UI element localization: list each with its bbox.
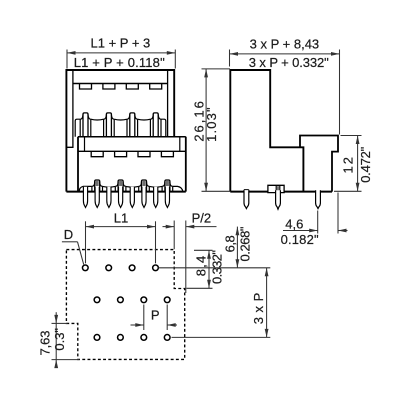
svg-text:P/2: P/2 xyxy=(192,211,212,226)
dim L1+P+3 over front view xyxy=(66,50,68,69)
dim 26,16 left of side view xyxy=(202,68,231,70)
bottom view: hole row 3 xyxy=(94,335,100,341)
dim 7,63 bottom-left step xyxy=(52,322,68,324)
dim 3xP+8,43 over side view xyxy=(229,50,231,67)
front view: lower band left end xyxy=(79,186,92,191)
bottom view: hole row 1 xyxy=(82,265,88,271)
svg-text:L1: L1 xyxy=(114,210,128,225)
bottom view: dashed body outline xyxy=(66,250,184,360)
front view: lower slot row xyxy=(91,151,103,156)
svg-text:6,8: 6,8 xyxy=(223,235,238,252)
dim P/2 over drilling plan right xyxy=(173,221,175,250)
dim 4,6 under side view right pin xyxy=(317,211,319,234)
front view: middle strip of lower housing xyxy=(78,136,186,138)
front view: upper flange line xyxy=(73,83,168,85)
svg-text:L1 + P + 0.118": L1 + P + 0.118" xyxy=(74,55,165,70)
svg-text:3 x P + 8,43: 3 x P + 8,43 xyxy=(250,37,320,52)
svg-text:1.03": 1.03" xyxy=(204,107,219,142)
svg-text:D: D xyxy=(64,227,73,242)
front view: upper scallop band xyxy=(83,113,88,137)
bottom view: hole row 2 xyxy=(94,297,100,303)
front view: lower scallop band xyxy=(95,180,100,192)
side view: main L profile xyxy=(230,70,303,192)
front view: scallop band left end xyxy=(75,119,80,137)
side view: left pin nubs above base xyxy=(243,190,245,192)
side view: middle pin pass-through post xyxy=(268,185,284,192)
dim 6,8 first hole row offset xyxy=(236,227,238,268)
svg-text:0.3": 0.3" xyxy=(52,328,67,351)
svg-text:8,4: 8,4 xyxy=(194,256,209,277)
front view: upper slot row xyxy=(80,84,92,90)
front view: upper housing outline xyxy=(66,70,174,192)
front view: lower band right end xyxy=(173,186,183,191)
svg-text:0.268": 0.268" xyxy=(238,226,253,261)
svg-text:0.472": 0.472" xyxy=(358,146,373,182)
side view: base line xyxy=(230,191,332,193)
svg-text:3 x P: 3 x P xyxy=(251,293,266,325)
svg-text:P: P xyxy=(151,307,160,322)
front view: scallop band right end xyxy=(161,119,166,137)
side view: lower block profile xyxy=(300,136,338,192)
svg-text:7,63: 7,63 xyxy=(38,331,53,356)
svg-text:L1 + P + 3: L1 + P + 3 xyxy=(91,36,151,51)
dim P between holes xyxy=(143,305,145,331)
front view: upper housing inner walls xyxy=(66,70,73,147)
side view: pins (3) xyxy=(244,190,249,208)
svg-text:0.332": 0.332" xyxy=(209,250,224,284)
svg-text:0.182": 0.182" xyxy=(281,232,319,247)
dim 3xP hole rows span xyxy=(159,267,271,269)
dim L1 over drilling plan xyxy=(85,221,87,263)
svg-text:3 x P + 0.332": 3 x P + 0.332" xyxy=(249,55,329,70)
svg-text:4,6: 4,6 xyxy=(285,217,303,232)
dim 12 right of side view xyxy=(341,135,362,137)
front view: base line xyxy=(66,191,185,193)
dim 8,4 drilling plan notch depth xyxy=(194,249,213,251)
front view: solder pins (8) xyxy=(83,187,87,208)
